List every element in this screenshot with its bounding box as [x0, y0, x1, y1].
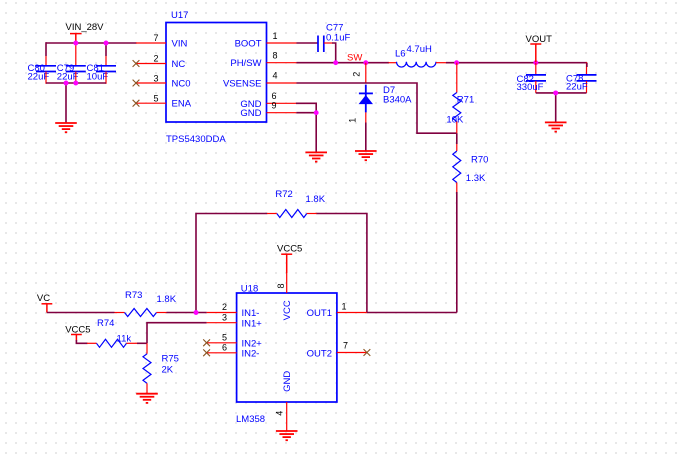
U17 pin 7 VIN [136, 33, 187, 50]
wire L6 to VOUT rail [446, 62, 587, 64]
U17 pin 9 GND [240, 101, 296, 120]
svg-text:2K: 2K [162, 365, 174, 376]
svg-text:4.7uH: 4.7uH [407, 44, 432, 55]
svg-text:NC: NC [172, 59, 186, 70]
ground input caps [55, 123, 77, 132]
svg-text:VCC5: VCC5 [277, 244, 302, 255]
svg-text:11k: 11k [117, 334, 132, 345]
U17 pin 4 VSENSE [223, 71, 297, 90]
svg-text:U18: U18 [241, 283, 258, 294]
svg-text:ENA: ENA [172, 99, 192, 110]
svg-text:1: 1 [273, 31, 278, 41]
power flag VOUT [526, 34, 553, 62]
svg-text:VIN_28V: VIN_28V [66, 22, 105, 33]
svg-text:1.8K: 1.8K [157, 294, 177, 305]
U17 pin 8 PH/SW [230, 51, 296, 70]
svg-text:8: 8 [276, 283, 286, 288]
capacitor C81 10uF [87, 63, 117, 82]
svg-text:NC0: NC0 [172, 79, 191, 90]
svg-text:1: 1 [348, 118, 358, 123]
power flag VIN_28V [66, 22, 105, 43]
resistor R70 1.3K [453, 133, 489, 192]
svg-text:7: 7 [343, 341, 348, 351]
wire C81 top drop [105, 42, 107, 66]
wire VSENSE feedback route [297, 83, 457, 133]
capacitor C80 22uF [28, 63, 57, 82]
wire C79 top drop [75, 43, 77, 66]
U18 pin 6 IN2- [203, 342, 259, 359]
wire C81 bottom drop [105, 72, 107, 84]
wire VC to R73 [47, 312, 115, 314]
svg-text:22uF: 22uF [566, 81, 588, 92]
ground D7 [355, 151, 377, 160]
resistor R71 10K [446, 63, 474, 134]
svg-text:IN2-: IN2- [242, 348, 260, 359]
wire C80 top drop [45, 42, 47, 66]
power flag VC [37, 293, 52, 313]
svg-text:R71: R71 [457, 94, 474, 105]
svg-text:8: 8 [273, 51, 278, 61]
junction output caps [553, 90, 558, 95]
resistor R74 11k [87, 318, 137, 348]
wire VCC5 to R74 [76, 340, 87, 343]
resistor R75 2K [143, 343, 179, 393]
op-amp U18 LM358 body [236, 283, 337, 425]
svg-text:10K: 10K [446, 115, 464, 126]
wire C80 bottom drop [45, 72, 47, 84]
svg-text:4: 4 [275, 411, 285, 416]
wire R74 to R75 node [137, 342, 147, 344]
svg-text:2: 2 [222, 302, 227, 312]
U18 pin 2 IN1- [207, 302, 260, 319]
svg-text:BOOT: BOOT [235, 39, 262, 50]
capacitor C77 0.1uF [318, 23, 350, 53]
wire C79 bottom drop [75, 72, 77, 84]
U18 pin 3 IN1+ [207, 312, 263, 329]
wire PH/SW to L6 [297, 62, 390, 64]
svg-text:PH/SW: PH/SW [230, 58, 261, 69]
svg-text:1.3K: 1.3K [466, 173, 486, 184]
svg-text:R72: R72 [275, 189, 292, 200]
wire BOOT to C77 [297, 42, 318, 44]
ground R75 [136, 394, 158, 403]
svg-text:TPS5430DDA: TPS5430DDA [166, 134, 226, 145]
power flag VCC5 top [277, 244, 302, 274]
svg-text:330uF: 330uF [517, 82, 544, 93]
svg-text:4: 4 [273, 71, 278, 81]
U17 pin 5 ENA [133, 94, 192, 110]
svg-text:B340A: B340A [383, 94, 412, 105]
svg-text:6: 6 [222, 342, 227, 352]
svg-text:9: 9 [272, 101, 277, 111]
U18 pin 5 IN2+ [203, 332, 262, 349]
svg-text:VIN: VIN [172, 39, 188, 50]
svg-text:0.1uF: 0.1uF [326, 33, 350, 44]
svg-text:1.8K: 1.8K [306, 194, 326, 205]
U17 pin 1 BOOT [235, 31, 297, 50]
svg-text:R70: R70 [471, 155, 488, 166]
svg-text:10uF: 10uF [87, 71, 109, 82]
junction dots input [64, 41, 109, 86]
svg-text:OUT1: OUT1 [307, 308, 332, 319]
U18 pin 1 OUT1 [307, 302, 367, 320]
U18 pin 4 GND [275, 402, 287, 431]
ground U18 [276, 431, 298, 440]
svg-text:VCC: VCC [282, 300, 293, 320]
svg-text:3: 3 [222, 312, 227, 322]
wire R73 to IN1- [167, 312, 207, 314]
svg-text:5: 5 [222, 332, 227, 342]
svg-text:1: 1 [342, 302, 347, 312]
op-amp/regulator U17 TPS5430DDA body [166, 10, 267, 145]
ground output caps [545, 122, 567, 131]
capacitor C82 330uF [517, 63, 547, 93]
svg-text:6: 6 [272, 91, 277, 101]
svg-text:OUT2: OUT2 [307, 348, 332, 359]
svg-text:2: 2 [352, 72, 362, 77]
wire output caps bottom bus [536, 63, 587, 123]
U17 pin 3 NC0 [133, 74, 191, 90]
resistor R73 1.8K [115, 290, 177, 317]
diode D7 B340A [348, 63, 413, 123]
svg-text:SW: SW [347, 53, 362, 64]
svg-text:5: 5 [153, 94, 158, 104]
wire bottom input bus [46, 82, 106, 84]
svg-text:R74: R74 [97, 318, 114, 329]
svg-text:3: 3 [153, 74, 158, 84]
svg-text:R73: R73 [125, 290, 142, 301]
wire input ground drop [65, 83, 67, 123]
wire R72 feedback loop [196, 214, 367, 313]
capacitor C79 22uF [57, 63, 86, 82]
wire C77 to SW node [332, 43, 336, 63]
svg-text:VSENSE: VSENSE [223, 79, 262, 90]
U17 pin 2 NC [133, 54, 186, 71]
U18 pin 7 OUT2 [307, 341, 371, 360]
junction dots VOUT rail [454, 60, 538, 65]
resistor R72 1.8K [267, 189, 326, 218]
wire R70 down to OUT1 net [456, 192, 458, 313]
svg-text:7: 7 [153, 33, 158, 43]
junction IN1- node [194, 310, 199, 315]
svg-text:VC: VC [37, 293, 50, 304]
wire IN1+ route [147, 323, 207, 344]
svg-text:IN1+: IN1+ [242, 318, 263, 329]
inductor L6 4.7uH [389, 44, 447, 67]
svg-text:U17: U17 [171, 10, 188, 21]
wire U17 gnd pins to ground [296, 103, 316, 152]
wire OUT1 to R70 [367, 312, 457, 314]
power flag VCC5 left [65, 325, 90, 341]
svg-text:R75: R75 [162, 354, 179, 365]
svg-text:LM358: LM358 [236, 414, 265, 425]
wire D7 to ground [365, 123, 367, 151]
junction dots SW node [333, 60, 368, 65]
wire top input bus [46, 42, 137, 44]
junction U17 gnd [314, 110, 319, 115]
svg-text:GND: GND [240, 108, 261, 119]
svg-text:L6: L6 [395, 49, 406, 60]
U18 pin 8 VCC [276, 273, 287, 293]
svg-text:GND: GND [282, 371, 293, 392]
U17 pin 6 GND [240, 91, 296, 110]
svg-text:2: 2 [153, 54, 158, 64]
capacitor C78 22uF [566, 62, 597, 93]
ground U17 [305, 152, 327, 161]
